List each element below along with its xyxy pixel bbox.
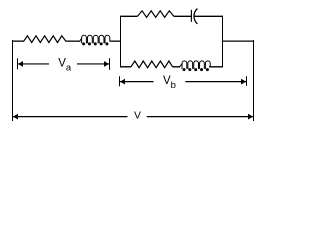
- inductor L2: [180, 61, 211, 71]
- wire R3 to L2: [173, 66, 180, 68]
- resistor R3: [131, 61, 173, 68]
- wire top branch left: [120, 15, 137, 17]
- wire bottom branch left: [120, 66, 131, 68]
- wire input left: [12, 40, 24, 42]
- svg-text:Vb: Vb: [163, 75, 176, 91]
- capacitor C1: [191, 9, 197, 24]
- wire R1 to L1: [66, 40, 81, 42]
- svg-text:Va: Va: [58, 58, 72, 74]
- wire parallel-box left vertical: [120, 16, 122, 68]
- wire R2 to C1: [174, 15, 191, 17]
- dimension V arrow: [13, 114, 253, 120]
- wire L2 to box right: [209, 66, 223, 68]
- wire C1 to box right: [194, 15, 223, 17]
- wire right terminal vertical: [253, 40, 255, 121]
- wire left terminal vertical: [12, 40, 14, 121]
- wire L1 to node: [110, 40, 121, 42]
- resistor R2: [137, 11, 174, 17]
- dimension Va arrow: [18, 58, 110, 70]
- wire output right: [223, 40, 254, 42]
- wire parallel-box right vertical: [222, 16, 224, 68]
- dimension Vb arrow: [120, 76, 247, 86]
- inductor L1: [80, 35, 110, 45]
- resistor R1: [24, 36, 66, 43]
- svg-text:V: V: [134, 110, 141, 122]
